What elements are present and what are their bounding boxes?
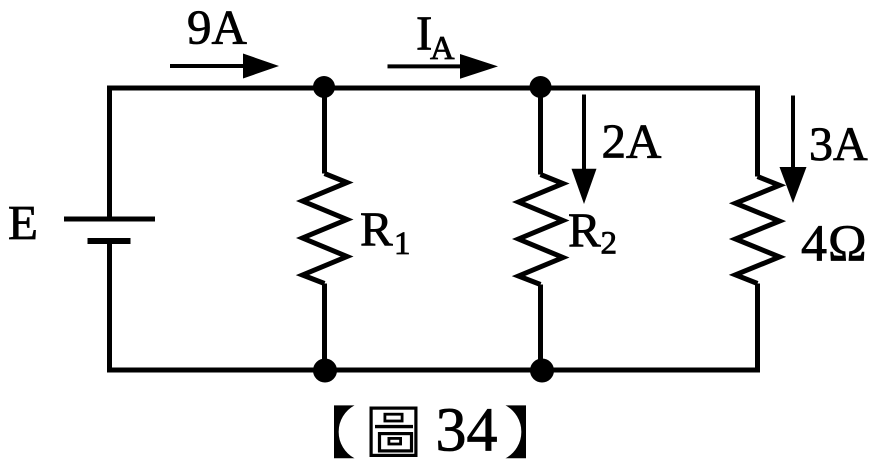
svg-text:1: 1 [394, 226, 411, 262]
svg-text:2: 2 [601, 225, 618, 261]
svg-text:2A: 2A [602, 114, 663, 169]
svg-text:9A: 9A [187, 0, 248, 55]
svg-text:34: 34 [436, 397, 498, 465]
svg-text:A: A [430, 30, 455, 67]
svg-text:R: R [568, 203, 601, 258]
svg-text:E: E [8, 195, 38, 250]
svg-text:Ω: Ω [828, 216, 867, 273]
svg-text:3A: 3A [809, 118, 868, 171]
svg-text:R: R [360, 202, 393, 257]
svg-text:4: 4 [801, 216, 827, 273]
